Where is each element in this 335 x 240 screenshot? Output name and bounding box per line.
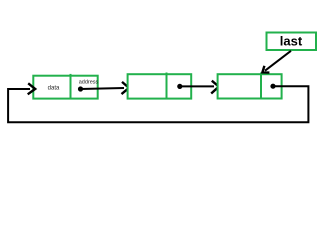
label last — [280, 34, 303, 49]
node N1 box — [33, 74, 97, 99]
label data — [48, 86, 60, 92]
loop wire N3 back to N1 — [8, 86, 308, 122]
arrowhead into N2 — [122, 82, 130, 94]
svg-text:last: last — [280, 34, 303, 49]
svg-text:address: address — [79, 80, 99, 86]
node N3 pointer dot — [270, 84, 275, 89]
wire N1 to N2 — [81, 88, 125, 89]
arrowhead onto N3 top — [262, 66, 269, 73]
svg-text:data: data — [48, 86, 60, 92]
node N2 pointer dot — [177, 84, 182, 89]
label address — [79, 80, 99, 86]
wire N2 to N3 — [180, 85, 214, 87]
node N3 box — [218, 73, 282, 99]
node N1 pointer dot — [78, 86, 83, 91]
node N2 box — [128, 73, 192, 99]
wire last to N3 — [265, 51, 291, 71]
arrowhead into N1 — [28, 83, 36, 94]
arrowhead into N3 — [211, 81, 219, 94]
last pointer box — [267, 33, 317, 51]
